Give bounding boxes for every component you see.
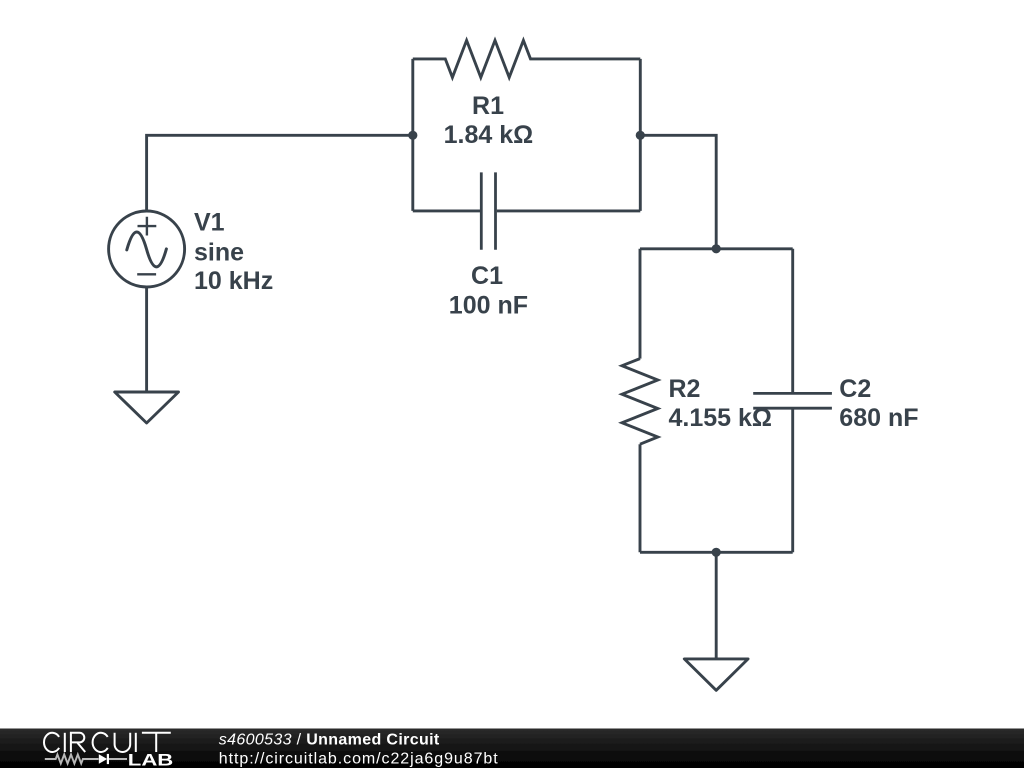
logo CIRCUIT letter C	[44, 733, 171, 752]
wire loop1 bottom right from C1	[497, 209, 641, 212]
wire loop1 right vertical	[639, 59, 642, 211]
voltage source V1 circle	[109, 211, 185, 287]
V1 minus sign	[137, 273, 156, 275]
svg-text:sine: sine	[194, 239, 244, 267]
node C junction dot	[712, 244, 721, 253]
logo mini diode	[99, 754, 107, 764]
logo letter U	[115, 733, 131, 752]
logo letter T	[142, 733, 171, 752]
svg-text:LAB: LAB	[128, 752, 174, 768]
logo letter C2	[93, 733, 108, 752]
wire loop1 bottom left to C1	[413, 209, 480, 212]
wire V1 bottom to ground	[145, 287, 148, 392]
node D junction dot	[712, 548, 721, 557]
svg-text:s4600533 / Unnamed Circuit: s4600533 / Unnamed Circuit	[219, 732, 440, 749]
wire loop2 bottom to ground	[715, 552, 718, 659]
svg-text:C2: C2	[839, 375, 871, 403]
capacitor C1 right plate	[494, 172, 497, 249]
wire loop2 bottom horizontal	[640, 551, 793, 554]
capacitor C2 bottom plate	[753, 407, 832, 410]
logo letter R	[71, 733, 85, 752]
wire loop1 left vertical	[411, 59, 414, 211]
wire top horizontal from V1 to node A	[147, 135, 413, 211]
svg-text:http://circuitlab.com/c22ja6g9: http://circuitlab.com/c22ja6g9u87bt	[219, 750, 499, 767]
svg-text:4.155 kΩ: 4.155 kΩ	[669, 404, 772, 432]
wire loop2 top horizontal	[640, 247, 793, 250]
svg-text:R1: R1	[472, 92, 504, 120]
svg-text:680 nF: 680 nF	[839, 404, 918, 432]
logo mini resistor wire	[45, 755, 127, 764]
svg-text:1.84 kΩ: 1.84 kΩ	[444, 121, 534, 149]
svg-text:C1: C1	[471, 262, 503, 290]
V1 sine wave	[127, 232, 167, 267]
wire loop2 right vertical upper	[791, 249, 794, 394]
svg-text:100 nF: 100 nF	[449, 291, 528, 319]
node B junction dot	[636, 131, 645, 140]
wire loop2 left vertical upper	[639, 249, 642, 359]
ground GND1	[115, 392, 179, 423]
resistor R2 zigzag	[622, 359, 658, 445]
svg-text:10 kHz: 10 kHz	[194, 267, 273, 295]
capacitor C2 top plate	[753, 392, 832, 395]
wire loop2 left vertical lower	[639, 444, 642, 552]
footer bar	[0, 729, 1024, 768]
svg-text:R2: R2	[669, 375, 701, 403]
logo letter I	[64, 733, 66, 752]
resistor R1 zigzag with top loop wires	[413, 40, 641, 77]
wire loop2 right vertical lower	[791, 408, 794, 552]
logo letter I2	[135, 733, 137, 752]
capacitor C1 left plate	[480, 172, 483, 249]
ground GND2	[684, 659, 748, 690]
wire node B to loop2 top	[640, 135, 716, 249]
svg-text:V1: V1	[194, 208, 225, 236]
node A junction dot	[408, 131, 417, 140]
V1 plus sign	[138, 217, 157, 236]
